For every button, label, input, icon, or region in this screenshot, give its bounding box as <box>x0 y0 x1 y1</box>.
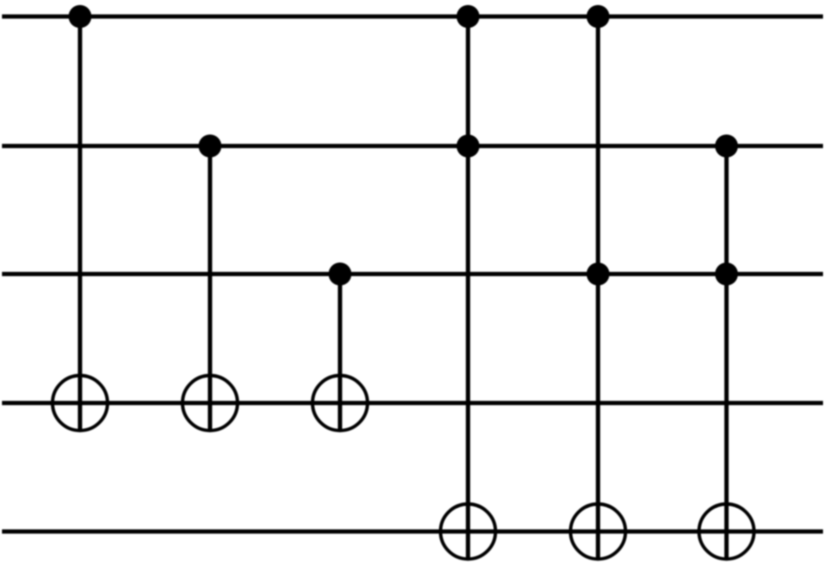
XOR target Toffoli1 on q4 <box>441 504 496 559</box>
control dot CNOT2 on q1 <box>199 135 222 158</box>
XOR target Toffoli3 on q4 <box>699 504 754 559</box>
control dot Toffoli1 on q1 <box>457 135 480 158</box>
wire Toffoli3 vertical connector (q1,q2 to q4) <box>724 146 728 561</box>
wire Toffoli1 vertical connector (q0,q1 to q4) <box>466 17 470 561</box>
XOR target CNOT1 on q3 <box>53 376 108 431</box>
control dot CNOT1 on q0 <box>69 5 92 28</box>
wire Toffoli2 vertical connector (q0,q2 to q4) <box>596 17 600 561</box>
wire q0 (top qubit line) <box>2 14 823 18</box>
wire q3 <box>2 401 823 405</box>
control dot CNOT3 on q2 <box>329 263 352 286</box>
XOR target Toffoli2 on q4 <box>571 504 626 559</box>
XOR target CNOT3 on q3 <box>313 376 368 431</box>
wire CNOT2 vertical connector (q1 to q3) <box>208 146 212 432</box>
wire q4 (bottom qubit line) <box>2 529 823 533</box>
control dot Toffoli1 on q0 <box>457 5 480 28</box>
control dot Toffoli3 on q1 <box>715 135 738 158</box>
wire q1 <box>2 144 823 148</box>
wire q2 <box>2 272 823 276</box>
wire CNOT1 vertical connector (q0 to q3) <box>78 17 82 433</box>
control dot Toffoli3 on q2 <box>715 263 738 286</box>
control dot Toffoli2 on q0 <box>587 5 610 28</box>
wire CNOT3 vertical connector (q2 to q3) <box>338 274 342 432</box>
control dot Toffoli2 on q2 <box>587 263 610 286</box>
XOR target CNOT2 on q3 <box>183 376 238 431</box>
